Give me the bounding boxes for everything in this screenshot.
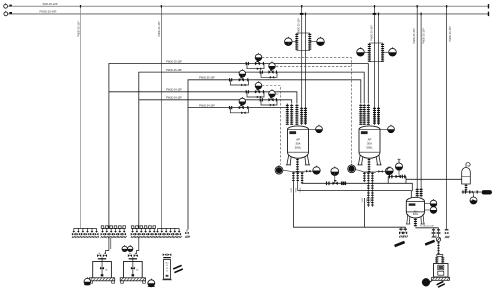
V2 inlet column from B — [363, 104, 366, 125]
tote base — [162, 279, 171, 281]
V2 outlet column 2 — [367, 172, 369, 182]
output line station F to V1 — [249, 104, 287, 108]
svg-text:PW30-25-15P: PW30-25-15P — [166, 69, 182, 72]
vessel V2 feed line b — [378, 14, 380, 125]
blowdown valve 2 on bottom line — [403, 227, 408, 237]
svg-text:PW30-25-15P: PW30-25-15P — [449, 26, 452, 42]
V1 right instrument — [313, 166, 320, 175]
V1 drain loop down — [293, 182, 405, 227]
instrument 2 right of V3 — [430, 206, 437, 214]
svg-text:PW30-25-15P: PW30-25-15P — [413, 28, 416, 44]
valve blob between V1 manifold and right instrument — [306, 170, 310, 173]
valve station E — [259, 97, 278, 106]
V2 outlet column 2 lower — [367, 182, 369, 207]
duplex strainer above vessel V1 — [295, 33, 298, 51]
instrument circle for station D — [255, 81, 262, 89]
valve manifold group G3 — [131, 226, 157, 238]
svg-text:PW30-25-40P: PW30-25-40P — [40, 10, 57, 14]
left instrument of duplex V1 — [285, 37, 293, 46]
skid 2 base platform — [120, 278, 145, 283]
strainer outlet ticked line — [437, 242, 439, 255]
valve station D — [245, 89, 265, 98]
instrument circle for station E — [269, 89, 276, 97]
V1 outlet column 1 — [292, 172, 294, 182]
skid 1 internals — [100, 262, 104, 277]
V2 drain stub — [368, 158, 371, 172]
header pipe W30-25 top — [8, 5, 489, 7]
chemical tote unit — [163, 253, 172, 258]
right instrument of duplex V2 — [389, 47, 397, 56]
header tee tick — [161, 5, 162, 8]
V1 inlet column feed b — [304, 107, 307, 125]
svg-text:PW30-25-15P: PW30-25-15P — [77, 21, 80, 37]
loop feed line to station B — [139, 72, 259, 228]
spec break ticks on Ha — [341, 182, 342, 185]
drain valve 1 below V3 drain — [433, 228, 435, 237]
header2 tee tick — [305, 13, 306, 16]
chemical tote body — [164, 260, 171, 280]
V2 inlet column from A — [367, 104, 370, 125]
skid 1 cabinet — [93, 262, 112, 279]
split to unit stack — [437, 255, 443, 257]
output line station E to V1 — [278, 100, 292, 104]
instrument under degasser — [470, 196, 477, 204]
dosing unit base — [432, 277, 450, 280]
name plate of vessel V1 — [289, 131, 296, 134]
svg-text:PW30-25-15P: PW30-25-15P — [423, 28, 426, 44]
skid 1 base platform — [89, 278, 114, 283]
valve station B — [259, 70, 278, 79]
dosing unit pump — [422, 278, 430, 286]
valve blob between V2 manifold and right instrument — [378, 170, 382, 173]
degasser vessel — [462, 163, 471, 184]
V2 level instrument (signal fed) — [348, 164, 356, 173]
stub V2 instrument — [356, 170, 364, 172]
loop feed line to station C — [188, 80, 228, 230]
header 2 end tick — [488, 12, 490, 16]
instrument right of V1 top — [316, 125, 323, 133]
header tee tick — [446, 5, 447, 8]
svg-text:PW30-25-15P: PW30-25-15P — [298, 18, 301, 34]
output line station A to V2 — [265, 64, 368, 104]
feed line to station E — [139, 99, 259, 101]
header tee tick — [374, 5, 375, 8]
name plate of vessel V3 — [409, 203, 416, 205]
skid 2 internals — [131, 262, 135, 277]
signal line station A to V2 instrument — [262, 58, 351, 165]
svg-text:500L: 500L — [413, 213, 419, 216]
relief valve stack of skid 1 — [97, 253, 107, 262]
V1 outlet column 2 extension — [297, 182, 299, 191]
output line station B to V2 — [278, 72, 364, 103]
header 1 end tick — [488, 4, 490, 8]
V2 outlet column 1 — [363, 172, 365, 182]
V1 drain stub — [296, 158, 299, 172]
header tee tick — [80, 5, 81, 8]
svg-text:PW30-24-15P: PW30-24-15P — [166, 89, 182, 92]
valve station F — [228, 105, 249, 114]
pump P2 right of skid 2 — [148, 279, 155, 287]
vessel V2 feed line a — [374, 6, 376, 125]
svg-text:TL130-14-10P: TL130-14-10P — [420, 226, 435, 228]
valve on dosing feed line — [445, 229, 449, 230]
instrument 1 right of V3 — [430, 199, 437, 207]
V2 bottom manifold bar — [364, 171, 376, 173]
output line station C to V2 — [249, 80, 360, 104]
signal line station D to V1 instrument — [262, 86, 280, 165]
feed line to station D — [109, 91, 245, 93]
left instrument of duplex V2 — [357, 47, 365, 56]
header2 tee tick — [378, 13, 379, 16]
process line Ha — [302, 183, 412, 191]
V2 inlet column feed a — [373, 107, 376, 125]
instrument circle for station A — [255, 53, 262, 61]
svg-text:PW30-24-15P: PW30-24-15P — [199, 104, 215, 107]
instrument pair right between skids — [128, 245, 133, 252]
V1 inlet column feed a — [300, 107, 303, 125]
booster station S2 — [387, 177, 389, 184]
header 2 flag — [9, 12, 12, 14]
riser to group G4 — [160, 6, 162, 229]
degasser outlet run — [462, 190, 482, 193]
V1 inlet column from D — [295, 104, 298, 125]
svg-text:PW30-25-15P: PW30-25-15P — [199, 77, 215, 80]
name plate of vessel V2 — [361, 131, 368, 134]
single blowdown valve right of G4 — [186, 230, 188, 232]
degasser outlet — [465, 184, 468, 193]
tee tick on V1 feed at header 2 — [300, 13, 304, 15]
V2 outlet column 3 lower — [371, 182, 373, 207]
header 1 flag — [9, 5, 11, 7]
instrument circle for station B — [269, 62, 276, 70]
header2 tee tick — [421, 13, 422, 16]
relief valve stack of skid 2 — [128, 253, 138, 262]
instrument pair left between skids — [122, 245, 127, 252]
drain arrow left of unit — [395, 242, 405, 246]
line G2 riser to skid 1 — [106, 238, 109, 254]
V1 bottom manifold bar — [292, 171, 304, 173]
line to dosing unit — [446, 6, 448, 229]
valve manifold group G4 — [156, 228, 182, 238]
V2 inlet column from C — [359, 104, 362, 125]
vessel V1 feed line b — [305, 14, 307, 125]
svg-text:PW30-25-15P: PW30-25-15P — [166, 60, 182, 63]
instrument circle for station F — [239, 97, 246, 105]
instrument 1 of station S2 — [387, 166, 393, 174]
pump P1 left of skid 1 — [84, 277, 91, 285]
V1 level instrument (signal fed) — [275, 165, 283, 174]
drain valve 2 + strainer below V3 drain — [438, 228, 440, 237]
blowdown valve 1 on bottom line — [399, 227, 404, 237]
valve manifold group G1 — [72, 228, 99, 238]
instrument 2 of station S2 — [395, 162, 402, 170]
header 1 source circle — [4, 3, 8, 8]
header tee tick — [301, 5, 302, 8]
tee tick on V2 feed at header 2 — [373, 13, 377, 15]
V3 inlet tick a — [416, 188, 419, 198]
drain arrow at dosing unit — [437, 281, 444, 284]
svg-text:PW30-25-15P: PW30-25-15P — [370, 25, 373, 41]
V2 inlet column feed b — [377, 107, 380, 125]
svg-text:PW30-24-15P: PW30-24-15P — [166, 97, 182, 100]
signal line station E — [276, 93, 280, 95]
dosing unit body — [434, 264, 449, 278]
vessel V1 feed line a — [301, 6, 303, 125]
line G3 riser to skid 2 — [137, 238, 139, 254]
riser to group G1 — [80, 6, 82, 228]
V2 outlet column 3 — [371, 172, 373, 182]
inline pump on degasser outlet — [482, 190, 493, 194]
right instrument of duplex V1 — [317, 37, 325, 46]
valve station C — [228, 77, 249, 86]
stub V1 instrument — [283, 170, 292, 171]
header 2 source circle — [4, 11, 8, 16]
loop feed line to station A — [109, 64, 245, 229]
skid 2 cabinet — [124, 262, 143, 279]
vessel V3 — [406, 197, 425, 224]
header tee tick — [417, 5, 418, 8]
svg-text:PW30-25-15P: PW30-25-15P — [158, 21, 161, 37]
V2 drain drop — [363, 198, 365, 227]
V3 inlet tick b — [420, 188, 423, 198]
output line station D to V1 — [265, 92, 297, 104]
vessel V3 feed line b — [420, 14, 422, 195]
valve on degasser outlet run — [469, 191, 473, 194]
duplex strainer above vessel V2 — [368, 43, 371, 62]
S2 drop to Ha — [405, 177, 407, 184]
instrument circle for station C — [239, 69, 246, 77]
booster station S1 on Ha — [326, 180, 346, 185]
drain arrow below V3 — [425, 241, 434, 245]
vessel V2 — [357, 126, 381, 165]
svg-text:%: % — [166, 271, 168, 273]
V2 right instrument — [385, 167, 392, 175]
arrow at tote 1 — [173, 265, 181, 269]
signal line station B — [276, 66, 351, 68]
instrument of station S1 — [331, 167, 339, 176]
drain arrow 2 at dosing unit — [438, 284, 445, 287]
V1 outlet column 3 — [301, 172, 303, 184]
V1 outlet column 2 — [297, 172, 299, 182]
vessel V1 — [286, 126, 310, 165]
svg-text:500L: 500L — [295, 145, 302, 149]
V1 inlet column from E — [290, 104, 293, 125]
process line Hb to vessel V3 — [298, 191, 412, 199]
feed line to station F — [188, 107, 228, 109]
svg-text:W30-25-10P: W30-25-10P — [42, 2, 57, 6]
valve station A — [245, 61, 265, 70]
svg-text:500L: 500L — [366, 145, 373, 149]
arrow at tote 2 — [174, 269, 182, 273]
V3 drain line — [414, 218, 417, 227]
second drop below G2 — [110, 238, 112, 249]
line S2 to degasser vessel — [406, 178, 462, 180]
valve manifold group G2 — [101, 226, 127, 238]
dosing unit valve stack — [435, 257, 438, 264]
instrument right of V2 top — [388, 125, 395, 133]
vessel V3 feed line a — [416, 6, 418, 195]
V1 inlet column from F — [286, 104, 289, 125]
header pipe PW30-25 second — [8, 13, 489, 15]
